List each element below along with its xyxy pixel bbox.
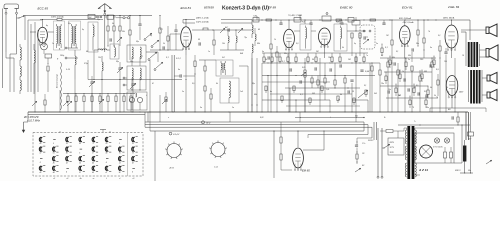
tube ECH81 AF stage <box>400 26 411 47</box>
svg-text:23: 23 <box>78 162 81 164</box>
svg-text:2k: 2k <box>433 95 436 97</box>
svg-text:0,2: 0,2 <box>438 35 440 37</box>
lower connection line <box>150 112 364 181</box>
svg-text:25p: 25p <box>129 61 133 63</box>
svg-text:3k3: 3k3 <box>374 93 377 95</box>
wire right power column <box>460 112 473 174</box>
AF extra caps <box>289 62 363 93</box>
AM coil pack bottom cluster <box>127 92 147 112</box>
svg-text:5n: 5n <box>178 69 180 71</box>
svg-text:1n: 1n <box>208 51 210 53</box>
grid parts cluster <box>107 15 122 46</box>
wire EM80 anode <box>297 130 298 147</box>
tube EL84 no.2 <box>446 76 458 99</box>
svg-text:A Z 11: A Z 11 <box>418 168 428 172</box>
FM bandfilter coil pair L1 <box>54 21 65 50</box>
svg-text:Konzert-3 D-dyn (U): Konzert-3 D-dyn (U) <box>222 5 269 11</box>
label 245V <box>442 17 455 20</box>
IF feed resistor <box>194 55 196 112</box>
band switch arrows <box>144 33 159 48</box>
svg-text:Fi1: Fi1 <box>140 56 143 58</box>
padder trimmer <box>89 76 95 94</box>
svg-text:10n: 10n <box>328 57 331 59</box>
AM osc coil vertical <box>102 56 103 80</box>
svg-text:6: 6 <box>40 162 41 164</box>
tube EABC80 label <box>340 5 353 9</box>
svg-text:5n: 5n <box>262 51 264 53</box>
AM oscillator coil <box>75 50 76 80</box>
svg-text:0,1: 0,1 <box>300 94 303 96</box>
svg-text:EM 80: EM 80 <box>302 169 310 173</box>
svg-text:1M: 1M <box>348 59 351 61</box>
wire antenna leads down <box>3 9 17 89</box>
ratio detector can Fi4 <box>334 19 347 51</box>
svg-text:0,1: 0,1 <box>282 61 285 63</box>
svg-text:5–25: 5–25 <box>66 69 70 71</box>
svg-text:16: 16 <box>462 55 464 57</box>
EM80 feed network <box>273 122 292 178</box>
Tr1 secondary winding <box>415 128 420 177</box>
svg-text:1k: 1k <box>274 39 276 41</box>
fuse <box>380 130 404 133</box>
dial drive label <box>169 132 180 136</box>
switch bottom right <box>486 160 492 164</box>
power transformer Tr1 core <box>407 126 414 179</box>
tone switch arrow <box>352 90 368 112</box>
RF switching parts <box>150 15 183 51</box>
wire AM bus <box>88 50 182 80</box>
svg-text:4: 4 <box>106 161 107 164</box>
svg-text:38: 38 <box>106 153 108 155</box>
svg-text:EABC 80: EABC 80 <box>340 5 353 9</box>
IF transformer big coil <box>220 78 239 103</box>
svg-text:15k: 15k <box>222 43 225 45</box>
pilot lamp La1 <box>434 138 439 143</box>
misc value labels <box>60 21 451 112</box>
svg-text:102V, 4,3mA: 102V, 4,3mA <box>196 21 209 24</box>
svg-text:C8: C8 <box>362 153 364 155</box>
second bus line with 50n tap <box>295 116 365 119</box>
svg-text:1n: 1n <box>52 43 54 45</box>
tube EF89 IF amplifier <box>284 29 295 50</box>
output network below bus <box>452 112 459 125</box>
rectifier tube AZ11 socket view <box>419 144 433 158</box>
wire mixer <box>170 20 186 56</box>
svg-text:0,1: 0,1 <box>381 55 383 57</box>
right column small parts <box>355 138 372 172</box>
loudspeaker LS4 side <box>487 89 497 100</box>
svg-text:50p: 50p <box>136 41 139 43</box>
output transformer Tr2b laminations <box>470 70 480 104</box>
Tr1 primary winding <box>404 128 407 177</box>
output transformer winding leads <box>461 20 482 102</box>
wire <box>294 20 316 31</box>
extra junction dots <box>94 15 441 80</box>
af area horizontal links <box>262 82 367 106</box>
AM coil pack upper box <box>127 45 146 66</box>
svg-text:23: 23 <box>65 143 68 145</box>
decoupling cap <box>174 74 195 77</box>
mains leads <box>367 128 383 178</box>
svg-text:1k: 1k <box>402 71 404 73</box>
svg-text:31: 31 <box>79 172 81 174</box>
bus junction dots <box>35 111 456 114</box>
table top ticks <box>60 131 110 133</box>
svg-text:370p: 370p <box>84 63 88 65</box>
tube ECC85 label <box>38 6 49 10</box>
svg-text:12: 12 <box>39 153 41 155</box>
shielded lead (double line) <box>172 55 174 113</box>
terminal circles left of pack <box>123 77 127 86</box>
labels 60V/-10V <box>399 17 414 24</box>
tube EF89 label <box>268 5 276 9</box>
svg-text:40: 40 <box>258 28 260 31</box>
wire EF89 <box>288 19 289 58</box>
small box 4k <box>45 54 52 64</box>
title Konzert-3 D-dyn (U) <box>222 5 269 11</box>
tube EM80 tuning indicator <box>293 148 304 171</box>
svg-text:0,1: 0,1 <box>160 29 163 31</box>
wire ECC85 connections <box>30 19 54 32</box>
wave band switch contact table frame <box>33 130 143 177</box>
svg-text:4n: 4n <box>270 90 272 93</box>
svg-text:30p: 30p <box>68 23 71 25</box>
svg-text:5p: 5p <box>354 43 356 45</box>
dial cord wavy line <box>60 62 63 110</box>
svg-text:92: 92 <box>132 162 134 164</box>
svg-text:e: e <box>168 117 169 119</box>
svg-text:s2: s2 <box>53 178 55 180</box>
AF parts second row <box>262 53 368 63</box>
svg-text:a: a <box>40 178 41 180</box>
driver area dense parts <box>380 44 438 109</box>
svg-text:5: 5 <box>79 153 80 155</box>
svg-text:0,25: 0,25 <box>302 67 305 69</box>
svg-text:220V: 220V <box>389 142 395 144</box>
svg-text:3k: 3k <box>342 47 344 49</box>
svg-text:71: 71 <box>92 143 94 145</box>
svg-text:Fi4: Fi4 <box>336 21 339 24</box>
filter capacitors <box>444 147 453 163</box>
dropper resistor dark bar <box>463 140 466 173</box>
power rails <box>398 112 470 163</box>
labels 240V/102V with bracket lines <box>183 17 252 24</box>
svg-text:61: 61 <box>53 153 55 155</box>
grid resistor EL84 no2 <box>437 74 452 108</box>
svg-text:2n: 2n <box>375 43 378 45</box>
svg-text:220V~: 220V~ <box>367 140 375 142</box>
label Fi <box>176 58 182 60</box>
svg-text:2k: 2k <box>162 43 165 45</box>
svg-text:A / B: A / B <box>169 167 175 170</box>
table bottom labels <box>40 177 134 180</box>
svg-text:+ 10,7 MHz: + 10,7 MHz <box>27 120 41 123</box>
AM coil pack lower box <box>127 66 146 91</box>
additional value labels <box>46 19 464 123</box>
tubes 2xEL84 label <box>447 5 460 9</box>
switch S1 antenna change-over <box>17 15 26 18</box>
svg-text:0,3: 0,3 <box>296 43 298 45</box>
wire EABC80 <box>324 45 326 58</box>
box right of fork <box>105 15 116 19</box>
tube EABC80 demodulator <box>319 28 331 48</box>
svg-text:L: L <box>146 95 147 97</box>
oscillator coil stack <box>252 20 253 113</box>
svg-text:50k: 50k <box>392 57 395 59</box>
svg-text:5k: 5k <box>430 87 432 89</box>
switch table contact cells <box>39 137 137 174</box>
svg-text:60V, 0,85mA: 60V, 0,85mA <box>399 17 411 20</box>
svg-text:ECC 85: ECC 85 <box>38 6 49 10</box>
svg-text:30n: 30n <box>284 53 287 55</box>
svg-text:300: 300 <box>424 71 427 73</box>
detector diode parts <box>347 30 366 56</box>
svg-text:C–D: C–D <box>214 167 219 169</box>
antenna terminal E <box>57 57 78 60</box>
svg-text:100V, 4,3mA: 100V, 4,3mA <box>51 16 64 19</box>
svg-text:4: 4 <box>66 171 67 174</box>
cathode network EL84 <box>439 40 448 58</box>
svg-text:6578/59: 6578/59 <box>204 5 214 9</box>
svg-text:4a: 4a <box>80 177 82 180</box>
svg-text:6: 6 <box>132 172 133 174</box>
svg-text:3n: 3n <box>430 47 432 49</box>
svg-text:20: 20 <box>351 91 354 93</box>
svg-text:12k: 12k <box>98 57 101 59</box>
wire antenna return loop <box>6 52 17 92</box>
bias network row <box>63 93 135 112</box>
svg-text:4p: 4p <box>46 24 48 27</box>
svg-text:0,1: 0,1 <box>364 85 366 87</box>
svg-text:300 V: 300 V <box>455 170 461 172</box>
svg-text:29: 29 <box>105 143 108 145</box>
svg-text:30p: 30p <box>116 61 119 63</box>
svg-text:13: 13 <box>119 162 121 164</box>
svg-text:2×TO 12/15: 2×TO 12/15 <box>432 146 443 149</box>
loudspeaker LS1 <box>486 24 497 37</box>
tube ECH81 label <box>181 6 192 10</box>
svg-text:H 2,4 V: H 2,4 V <box>173 133 180 136</box>
svg-text:7n: 7n <box>366 55 368 57</box>
svg-text:S2: S2 <box>362 165 364 167</box>
svg-text:240V, 1,2mA: 240V, 1,2mA <box>195 17 209 20</box>
wire EL84 no1 pins <box>451 19 452 58</box>
svg-text:Abstimmanzeige: Abstimmanzeige <box>56 74 59 89</box>
svg-text:1,2k: 1,2k <box>326 89 329 91</box>
svg-text:1n: 1n <box>232 107 234 109</box>
FM oscillator can L3 <box>88 22 98 52</box>
svg-text:100p: 100p <box>60 55 64 57</box>
antenna terminal A <box>58 47 78 50</box>
svg-text:90: 90 <box>119 172 121 174</box>
svg-text:25n: 25n <box>425 107 429 109</box>
trimmer circles pair <box>116 17 130 19</box>
svg-text:6p: 6p <box>82 29 84 31</box>
svg-text:2n: 2n <box>181 91 184 93</box>
svg-text:8p: 8p <box>150 35 152 37</box>
svg-text:90: 90 <box>198 39 200 41</box>
svg-text:32: 32 <box>66 162 68 164</box>
IF transformer Fi1 coil pair <box>216 60 233 76</box>
svg-text:2n: 2n <box>199 107 202 109</box>
heater label <box>202 121 211 125</box>
rectifier frame <box>415 133 454 163</box>
mains switch <box>382 144 390 149</box>
volume potentiometer <box>301 58 306 112</box>
variable capacitor C-ant <box>130 78 136 94</box>
vertical label Abstimmung <box>56 74 59 89</box>
output transformer Tr2a laminations <box>468 42 478 67</box>
osc coupling coil <box>255 28 256 46</box>
svg-text:0,1: 0,1 <box>166 57 169 59</box>
tube ECH81 mixer <box>181 27 192 50</box>
svg-text:EF 89: EF 89 <box>268 5 276 9</box>
AF coupling parts rows <box>262 62 380 112</box>
EF89 screen network <box>268 20 278 112</box>
mixer small parts <box>192 28 252 55</box>
loudspeaker LS3 side <box>487 72 497 83</box>
print code 6578/59 <box>204 5 214 9</box>
svg-text:s0: s0 <box>132 178 134 180</box>
svg-text:60: 60 <box>79 143 81 145</box>
band switch arrows mid <box>146 52 163 71</box>
tube socket view A <box>165 142 183 170</box>
svg-text:0,5: 0,5 <box>424 91 426 93</box>
wire left feeders <box>25 16 42 93</box>
voltage selector <box>388 131 404 155</box>
supply line with resistor bead <box>40 19 103 21</box>
svg-text:0,5: 0,5 <box>416 85 418 87</box>
wire speaker leads <box>458 30 487 95</box>
svg-text:76: 76 <box>119 153 121 155</box>
B+ rail top <box>252 19 470 21</box>
small box 12V <box>468 132 474 141</box>
loudspeaker LS2 (large) <box>486 45 498 61</box>
FM tuner coil L5 <box>34 44 35 94</box>
resistor below <box>47 66 49 92</box>
rail resistor beads and boxes <box>253 13 437 25</box>
wire EM80 link <box>303 131 325 151</box>
svg-text:6,8k: 6,8k <box>254 16 257 18</box>
svg-text:50k: 50k <box>408 55 411 57</box>
diode section dashed enclosure <box>360 25 375 49</box>
svg-text:20k: 20k <box>121 31 125 33</box>
svg-text:0,5: 0,5 <box>192 83 194 85</box>
svg-text:2×EL 84: 2×EL 84 <box>447 5 460 9</box>
svg-text:0,1: 0,1 <box>385 47 388 49</box>
svg-text:78: 78 <box>132 153 134 155</box>
misc vertical parts <box>371 63 381 112</box>
FM tuner coil stack L4 <box>20 44 21 94</box>
top small box <box>352 17 360 31</box>
svg-text:5k: 5k <box>112 23 114 25</box>
svg-text:12p: 12p <box>97 19 100 21</box>
svg-text:5: 5 <box>53 143 54 145</box>
pilot lamp La2 <box>444 138 449 143</box>
tube EM80 label <box>302 169 310 173</box>
box MW pushbutton label <box>88 15 95 19</box>
svg-text:80p: 80p <box>252 83 255 85</box>
svg-text:L: L <box>106 178 107 180</box>
svg-text:125: 125 <box>444 61 447 63</box>
FM bandfilter coil pair L2 <box>69 21 81 50</box>
svg-text:2M: 2M <box>315 51 319 53</box>
svg-text:a: a <box>300 117 301 119</box>
svg-text:245V: 245V <box>458 91 464 94</box>
svg-text:6k: 6k <box>216 83 218 85</box>
wire antenna bus <box>25 15 152 17</box>
svg-text:0,1: 0,1 <box>396 51 398 53</box>
trimmer top view circle <box>41 43 48 54</box>
antenna dipole (AM) <box>4 4 19 14</box>
svg-text:18: 18 <box>132 143 134 145</box>
svg-text:ECH 81: ECH 81 <box>402 5 413 9</box>
IF can Fi3 <box>300 24 311 50</box>
svg-text:-10V, 0,5mA: -10V, 0,5mA <box>402 21 414 24</box>
svg-text:2: 2 <box>118 143 120 145</box>
FM dipole antenna symbol <box>98 4 112 16</box>
svg-text:ECH 81: ECH 81 <box>181 6 192 10</box>
svg-text:110V: 110V <box>390 152 395 154</box>
svg-text:70p: 70p <box>244 37 247 39</box>
ground arrow <box>22 112 28 133</box>
svg-text:245V, 36mA: 245V, 36mA <box>442 17 455 20</box>
tube AZ11 label <box>418 168 428 172</box>
label 100V 4,3mA <box>51 16 64 19</box>
tube EL84 no.1 <box>445 25 458 51</box>
svg-text:50n: 50n <box>468 170 471 172</box>
svg-text:TO, 40V, 1,75mA: TO, 40V, 1,75mA <box>288 14 303 17</box>
coupling parts x126-140 <box>129 15 142 60</box>
svg-text:70: 70 <box>412 107 414 109</box>
tube ECC85 FM front end <box>38 27 48 45</box>
wire links <box>199 58 258 112</box>
svg-text:127V: 127V <box>390 147 395 149</box>
variable capacitor C-osc <box>117 62 123 80</box>
svg-text:17: 17 <box>92 153 94 155</box>
wire drops to ground bus <box>35 55 455 112</box>
heater supply run (3 wires) <box>145 112 377 140</box>
tube socket view B <box>209 141 227 169</box>
left stubs above bus <box>32 92 167 112</box>
lamp label <box>432 146 443 149</box>
svg-text:2n: 2n <box>407 59 410 61</box>
IF value label <box>23 116 41 123</box>
svg-text:1n5: 1n5 <box>240 91 243 93</box>
svg-text:C7a: C7a <box>362 143 365 145</box>
small terminal circles near fork <box>95 16 102 18</box>
detector resistors <box>204 60 212 112</box>
svg-text:1k: 1k <box>446 87 448 89</box>
svg-text:ZF = 470 kHz: ZF = 470 kHz <box>23 116 39 119</box>
svg-text:0,5M: 0,5M <box>365 71 370 73</box>
svg-text:s3: s3 <box>66 178 68 180</box>
chassis ground bus <box>28 112 468 114</box>
driver network <box>387 19 433 112</box>
label 300V <box>455 170 461 172</box>
wire FM input lead <box>104 16 106 53</box>
svg-text:80: 80 <box>66 153 68 155</box>
svg-text:25n: 25n <box>415 43 419 45</box>
switch arrows near row <box>63 99 104 106</box>
AM antenna coupling coil <box>94 49 110 50</box>
AM coil can small <box>110 44 119 59</box>
speaker field coil line <box>430 108 486 112</box>
svg-text:14 Ω: 14 Ω <box>206 121 211 124</box>
svg-text:10n: 10n <box>381 83 384 85</box>
mixer grid coils <box>220 29 244 50</box>
tube ECH81 (second) label <box>402 5 413 9</box>
